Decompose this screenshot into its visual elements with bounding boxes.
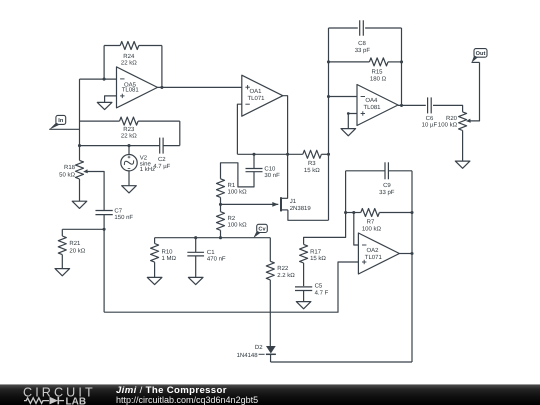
footer bar — [0, 384, 540, 405]
node junction R2 bottom — [219, 236, 222, 239]
ground R21 — [55, 269, 70, 276]
svg-text:C8: C8 — [358, 40, 366, 47]
svg-text:15 kΩ: 15 kΩ — [310, 255, 326, 262]
svg-text:Cv: Cv — [258, 227, 266, 233]
wire Out flag stub — [472, 61, 480, 63]
wire R10 bottom lead — [154, 262, 156, 277]
wire R24 feedback left vertical — [103, 46, 105, 80]
svg-text:D2: D2 — [255, 344, 263, 351]
node junction C1 top — [194, 236, 197, 239]
wire C6 to R20 — [433, 105, 463, 112]
wire C10 bottom jog — [221, 163, 255, 187]
wire R7 left — [346, 212, 361, 214]
wire C9 frame right vertical — [411, 171, 413, 213]
logo resistor zigzag — [24, 397, 49, 403]
svg-text:100 kΩ: 100 kΩ — [228, 189, 248, 196]
resistor R10 — [151, 244, 177, 263]
wire R20 wiper — [470, 62, 480, 121]
wire C2 right vertical — [179, 121, 181, 146]
svg-text:2.2 kΩ: 2.2 kΩ — [277, 272, 295, 279]
wire J1 gate — [221, 203, 279, 205]
diode D2 1N4148 — [237, 344, 276, 359]
svg-text:22 kΩ: 22 kΩ — [121, 60, 137, 67]
svg-text:R15: R15 — [371, 69, 383, 76]
wire feedback bus vertical — [328, 28, 330, 220]
resistor R23 — [120, 117, 139, 140]
svg-text:100 kΩ: 100 kΩ — [228, 222, 248, 229]
svg-text:33 pF: 33 pF — [355, 47, 371, 54]
op-amp OA5 TL081 — [117, 67, 158, 108]
wire C8 right — [365, 27, 401, 29]
node junction OA2 minus tap — [352, 211, 355, 214]
svg-text:33 pF: 33 pF — [379, 189, 395, 196]
node junction V2 top — [127, 144, 130, 147]
wire R17 to C5 — [303, 263, 305, 286]
wire R24 top left — [104, 45, 120, 47]
resistor R2 — [217, 212, 248, 231]
op-amp OA1 TL071 — [242, 75, 283, 116]
svg-text:R22: R22 — [277, 265, 289, 272]
svg-text:100 kΩ: 100 kΩ — [362, 225, 382, 232]
svg-text:R2: R2 — [228, 215, 236, 222]
svg-text:50 kΩ: 50 kΩ — [59, 171, 75, 178]
svg-text:LAB: LAB — [66, 396, 87, 405]
svg-text:C9: C9 — [383, 182, 391, 189]
node junction OA5 output — [160, 86, 163, 89]
wire C9 top left — [346, 170, 385, 172]
CircuitLab logo — [23, 386, 148, 405]
svg-text:15 kΩ: 15 kΩ — [304, 167, 320, 174]
svg-text:TL081: TL081 — [122, 87, 140, 94]
wire C9 top right — [388, 170, 412, 172]
svg-text:20 kΩ: 20 kΩ — [69, 247, 85, 254]
ground OA4 plus — [341, 129, 356, 136]
wire R21 top lead — [61, 229, 63, 236]
resistor R17 — [300, 244, 327, 263]
wire J1 drain up — [287, 154, 289, 198]
svg-text:Out: Out — [476, 51, 486, 57]
logo diode — [50, 396, 59, 404]
node Cv flag — [253, 224, 267, 238]
node junction OA4 output — [400, 104, 403, 107]
svg-text:TL071: TL071 — [247, 95, 265, 102]
node junction R15 left — [327, 60, 330, 63]
node junction C9 left — [344, 211, 347, 214]
svg-text:R1: R1 — [228, 182, 236, 189]
wire R24 top right — [139, 45, 162, 47]
wire C7 bottom lead — [103, 215, 105, 230]
capacitor C8 — [355, 20, 371, 54]
svg-text:30 nF: 30 nF — [264, 172, 280, 179]
node junction R7 right — [410, 211, 413, 214]
node junction OA4 minus — [327, 95, 330, 98]
svg-text:OA2: OA2 — [366, 247, 379, 254]
svg-text:R21: R21 — [69, 240, 81, 247]
node junction R1-R2-gate — [219, 203, 222, 206]
wire OA4 minus input — [329, 96, 358, 98]
wire R1 bottom lead — [220, 197, 222, 204]
wire C7 node down to rail — [103, 229, 105, 312]
wire OA5 plus input — [105, 96, 117, 103]
wire node line y146 left — [80, 145, 160, 147]
wire rail D2 to OA2 out — [271, 361, 412, 363]
wire R18 wiper — [88, 172, 105, 211]
wire OA4 output — [398, 104, 426, 106]
wire R17 branch — [304, 213, 346, 245]
svg-text:C6: C6 — [426, 115, 434, 122]
capacitor C9 — [379, 162, 395, 196]
resistor R7 — [361, 209, 382, 233]
node junction R3 right — [327, 153, 330, 156]
wire V2 top lead — [128, 146, 130, 155]
svg-text:1N4148: 1N4148 — [237, 352, 259, 359]
wire J1 source — [288, 210, 329, 220]
wire control node line — [155, 237, 271, 239]
wire C10 top lead — [253, 154, 255, 168]
resistor R24 — [120, 42, 139, 67]
svg-text:R20: R20 — [446, 115, 458, 122]
ground C1 — [188, 277, 203, 284]
resistor R15 — [369, 58, 388, 82]
wire R20 bottom lead — [462, 131, 464, 162]
node junction OA1 out drain — [286, 153, 289, 156]
wire V2 bottom lead — [128, 171, 130, 186]
svg-text:R7: R7 — [367, 219, 375, 226]
ground OA5 plus — [97, 102, 112, 109]
wire R21 bottom lead — [61, 255, 63, 269]
wire C5 bottom lead — [303, 291, 305, 302]
svg-text:C5: C5 — [315, 283, 323, 290]
node junction input bus — [78, 144, 81, 147]
wire OA1 minus input — [237, 104, 241, 154]
svg-text:22 kΩ: 22 kΩ — [121, 133, 137, 140]
wire R3 right lead — [321, 153, 328, 155]
svg-text:100 kΩ: 100 kΩ — [438, 122, 458, 129]
svg-text:4.7 µF: 4.7 µF — [153, 163, 170, 170]
wire C9 frame left vertical — [345, 171, 347, 213]
node junction C10 tap — [252, 153, 255, 156]
capacitor C7 — [95, 207, 133, 221]
capacitor C1 — [187, 249, 226, 263]
wire R18 bottom lead — [79, 179, 81, 201]
svg-text:J1: J1 — [290, 198, 297, 205]
svg-text:C1: C1 — [207, 249, 215, 256]
resistor R3 — [303, 150, 322, 174]
svg-text:2N3819: 2N3819 — [290, 205, 312, 212]
svg-text:R18: R18 — [64, 164, 76, 171]
wire OA4 plus input — [348, 114, 357, 129]
wire R23 left lead — [80, 120, 120, 122]
svg-text:150 nF: 150 nF — [114, 214, 133, 221]
capacitor C10 — [246, 165, 281, 179]
wire R24 feedback right vertical — [161, 46, 163, 88]
svg-text:C7: C7 — [114, 207, 122, 214]
resistor R21 — [58, 236, 85, 255]
node junction OA4 plus — [347, 112, 350, 115]
svg-text:TL071: TL071 — [365, 254, 383, 261]
potentiometer R20 — [438, 112, 471, 131]
svg-text:OA1: OA1 — [249, 88, 262, 95]
capacitor C2 — [153, 138, 170, 170]
wire In to bus — [49, 128, 79, 130]
wire OA2 output — [399, 253, 412, 255]
capacitor C5 — [295, 283, 329, 297]
resistor R1 — [217, 179, 248, 198]
source V2 sine — [121, 154, 155, 173]
wire R10 top lead — [154, 238, 156, 244]
svg-text:4.7 F: 4.7 F — [315, 290, 329, 297]
wire OA5 minus input — [80, 78, 117, 80]
node junction C7-R21 — [103, 228, 106, 231]
wire C2 to corner — [163, 145, 180, 147]
resistor R22 — [266, 261, 295, 280]
wire rail OA2 plus — [104, 262, 358, 312]
wire D2 cathode lead — [270, 354, 272, 362]
wire OA2 right vertical — [411, 213, 413, 363]
op-amp OA4 TL081 — [357, 85, 398, 126]
ground R18 — [72, 201, 87, 208]
svg-text:C2: C2 — [158, 156, 166, 163]
svg-text:OA4: OA4 — [365, 97, 378, 104]
svg-text:10 µF: 10 µF — [422, 122, 438, 129]
wire R22 bottom lead — [269, 280, 271, 346]
wire OA1 output stub — [283, 96, 288, 155]
footer title text — [116, 386, 258, 405]
wire R15 right — [388, 61, 402, 63]
wire R2 bottom lead — [220, 230, 222, 237]
wire R15 left — [329, 61, 370, 63]
node In flag — [49, 115, 66, 129]
node junction OA2 output — [410, 252, 413, 255]
ground R20 — [455, 161, 470, 168]
wire input vertical bus — [79, 79, 81, 160]
node junction R15 right — [400, 60, 403, 63]
svg-text:C10: C10 — [264, 165, 276, 172]
wire R3 line left — [237, 153, 302, 155]
svg-text:180 Ω: 180 Ω — [370, 75, 387, 82]
svg-text:1 MΩ: 1 MΩ — [162, 255, 177, 262]
node Out flag — [472, 49, 488, 63]
svg-text:In: In — [58, 118, 64, 124]
svg-text:R24: R24 — [123, 53, 135, 60]
wire C8 left — [329, 27, 358, 29]
wire OA2 minus drop — [354, 213, 359, 246]
wire R22 top lead — [269, 238, 271, 262]
wire C8 right vertical — [401, 28, 403, 105]
wire R7 right — [379, 212, 412, 214]
node junction OA5 minus — [103, 78, 106, 81]
wire C1 top lead — [195, 238, 197, 253]
wire R23 right lead — [138, 120, 180, 122]
svg-text:TL081: TL081 — [363, 104, 381, 111]
ground V2 — [122, 186, 137, 193]
ground C5 — [296, 302, 311, 309]
capacitor C6 — [422, 97, 438, 128]
svg-text:R3: R3 — [308, 160, 316, 167]
svg-text:R17: R17 — [310, 248, 322, 255]
svg-text:1 kHz: 1 kHz — [140, 166, 155, 173]
wire C1 bottom lead — [195, 256, 197, 278]
potentiometer R18 — [59, 160, 88, 179]
transistor J1 2N3819 — [272, 197, 311, 212]
wire OA5 output to OA1 plus — [158, 86, 242, 88]
op-amp OA2 TL071 — [358, 233, 399, 274]
ground R10 — [147, 277, 162, 284]
svg-text:R23: R23 — [123, 126, 135, 133]
svg-text:R10: R10 — [162, 248, 174, 255]
svg-text:470 nF: 470 nF — [207, 256, 226, 263]
wire to R21 — [62, 228, 104, 230]
wire R2 top lead — [220, 204, 222, 211]
